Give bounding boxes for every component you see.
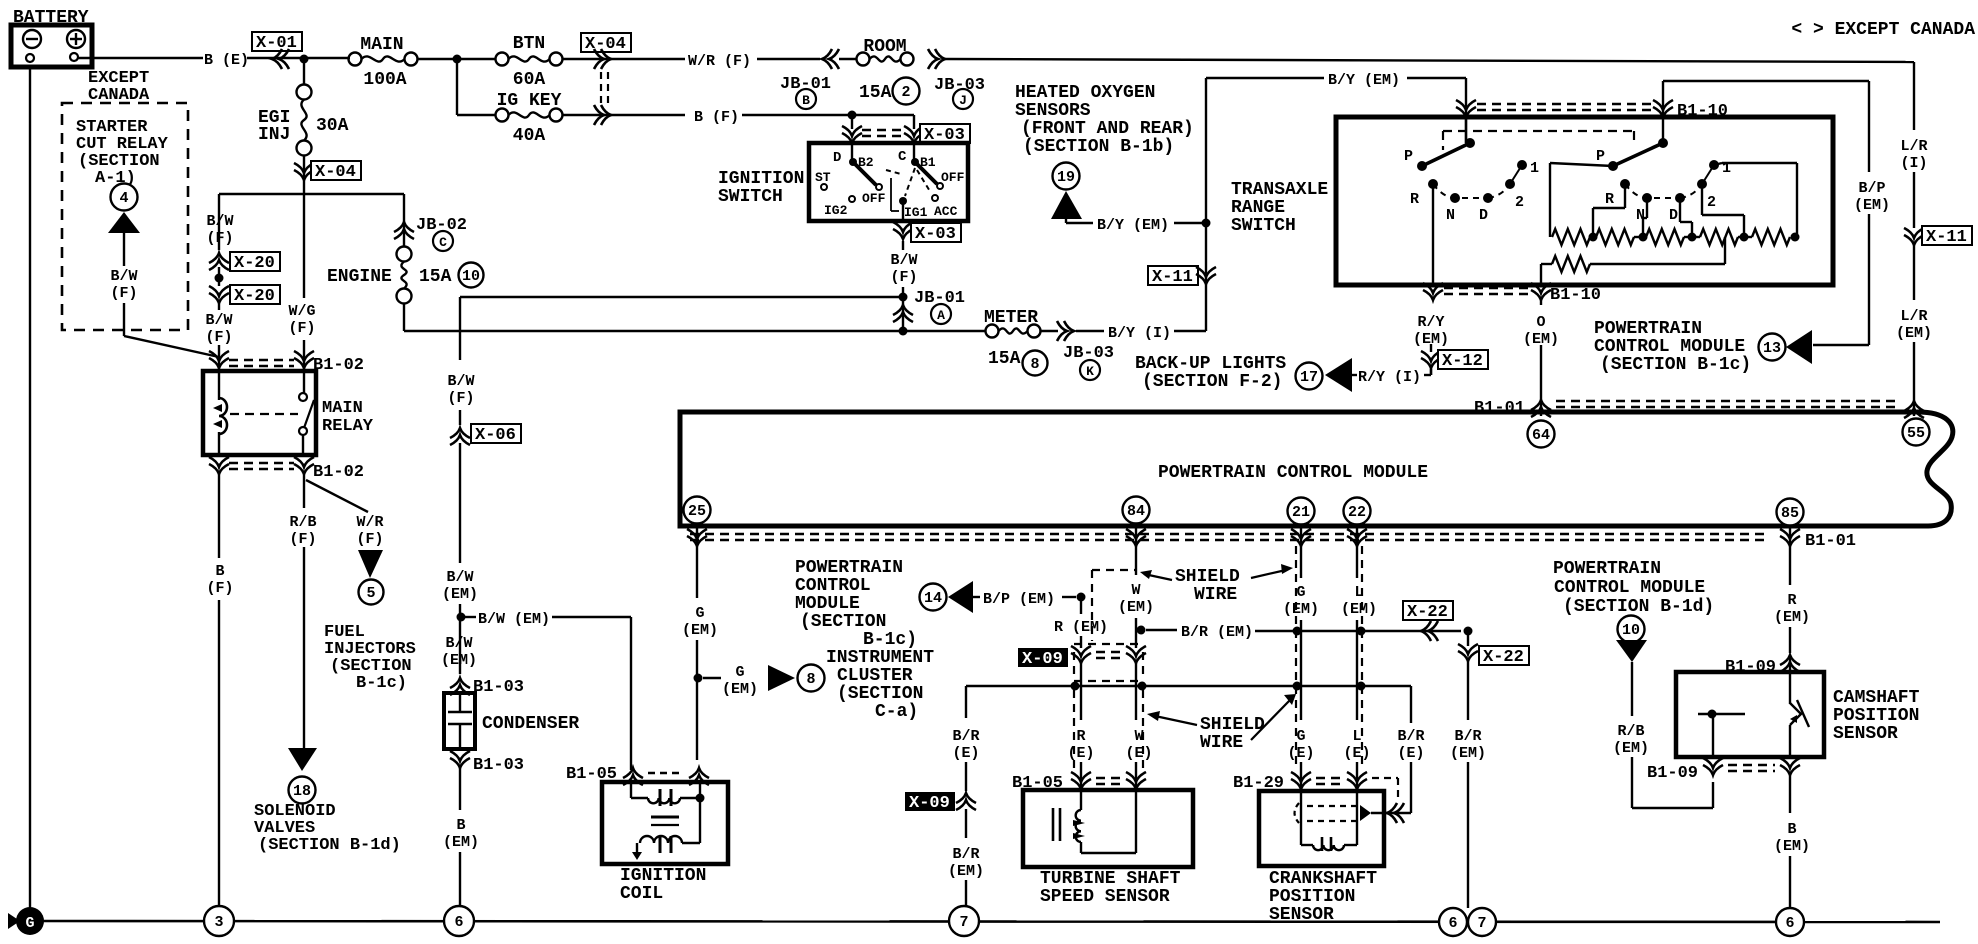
ignition coil internals bbox=[631, 782, 705, 860]
camshaft position sensor box bbox=[1676, 672, 1920, 757]
label SHIELD WIRE lower bbox=[1147, 694, 1296, 753]
wire B/Y (EM) to HO2S bbox=[1066, 217, 1206, 234]
svg-text:17: 17 bbox=[1300, 369, 1318, 386]
svg-text:IG2: IG2 bbox=[824, 203, 848, 218]
svg-text:TURBINE SHAFT: TURBINE SHAFT bbox=[1040, 869, 1181, 889]
wire B/W (F) to main relay bbox=[205, 303, 232, 371]
svg-text:IG KEY: IG KEY bbox=[497, 91, 562, 111]
node X-20 junction bbox=[215, 267, 224, 286]
svg-text:B/W: B/W bbox=[110, 268, 137, 285]
svg-text:B-1c): B-1c) bbox=[863, 630, 917, 650]
wire G (EM) pin 21 to CKP bbox=[1283, 528, 1319, 791]
svg-text:G: G bbox=[25, 915, 34, 932]
svg-text:B1-01: B1-01 bbox=[1805, 532, 1856, 551]
svg-text:G: G bbox=[1296, 584, 1305, 601]
wire R/B (F) to solenoid valves bbox=[289, 474, 316, 748]
ground G bbox=[8, 907, 44, 935]
off-page arrow 17 back-up lights bbox=[1296, 358, 1353, 392]
svg-text:X-01: X-01 bbox=[256, 34, 297, 53]
svg-text:POSITION: POSITION bbox=[1833, 706, 1919, 726]
svg-text:INSTRUMENT: INSTRUMENT bbox=[826, 648, 934, 668]
label STARTER CUT RELAY bbox=[76, 118, 169, 188]
svg-text:X-12: X-12 bbox=[1442, 352, 1483, 371]
svg-text:(E): (E) bbox=[1067, 745, 1094, 762]
off-page arrow 4 starter cut relay bbox=[108, 184, 140, 234]
svg-text:(F): (F) bbox=[206, 580, 233, 597]
wire B (F) relay to ground rail bbox=[206, 474, 233, 907]
connector JB-01 B bbox=[780, 49, 839, 109]
svg-text:CLUSTER: CLUSTER bbox=[837, 666, 913, 686]
svg-text:8: 8 bbox=[806, 671, 815, 688]
svg-text:W/R (F): W/R (F) bbox=[688, 53, 751, 70]
svg-text:CAMSHAFT: CAMSHAFT bbox=[1833, 688, 1920, 708]
svg-text:X-11: X-11 bbox=[1926, 228, 1967, 247]
wire B(E) battery to X-01 bbox=[78, 52, 350, 69]
off-page arrow 13 powertrain control module bbox=[1759, 330, 1813, 364]
svg-text:CRANKSHAFT: CRANKSHAFT bbox=[1269, 869, 1377, 889]
node shield G at B/R bbox=[1293, 627, 1302, 636]
ignition switch internals bbox=[815, 143, 965, 220]
node B/R X-22 junction bbox=[1464, 627, 1473, 636]
svg-text:B/Y (EM): B/Y (EM) bbox=[1097, 217, 1169, 234]
svg-text:B/W: B/W bbox=[206, 213, 233, 230]
wire MAIN fuse to BTN fuse bbox=[418, 58, 496, 60]
fuse BTN 60A bbox=[496, 34, 563, 90]
rail node 3 bbox=[204, 906, 234, 936]
svg-text:(EM): (EM) bbox=[1118, 599, 1154, 616]
svg-text:MAIN: MAIN bbox=[322, 399, 363, 418]
node shield bus R bbox=[1071, 682, 1080, 691]
node shield bus L bbox=[1357, 682, 1366, 691]
wire BTN to X-04 bbox=[563, 58, 685, 60]
svg-text:POWERTRAIN: POWERTRAIN bbox=[1553, 559, 1661, 579]
wire R (EM) down to TSS bbox=[1054, 597, 1108, 790]
svg-text:5: 5 bbox=[366, 585, 375, 602]
connector B1-09 top bbox=[1725, 655, 1800, 677]
off-page arrow 19 heated oxygen sensors bbox=[1051, 163, 1082, 220]
svg-text:G: G bbox=[735, 664, 744, 681]
svg-text:10: 10 bbox=[1622, 622, 1640, 639]
svg-text:13: 13 bbox=[1763, 340, 1781, 357]
svg-text:(FRONT AND REAR): (FRONT AND REAR) bbox=[1021, 119, 1194, 139]
svg-text:B/W: B/W bbox=[446, 569, 473, 586]
connector B1-02 lower bbox=[209, 457, 364, 482]
svg-text:HEATED OXYGEN: HEATED OXYGEN bbox=[1015, 83, 1155, 103]
svg-text:(SECTION: (SECTION bbox=[837, 684, 923, 704]
pin 84 bbox=[1123, 497, 1150, 524]
wire W (EM) pin 84 to TSS bbox=[1118, 528, 1154, 790]
wire W/G (F) down to main relay bbox=[288, 194, 315, 371]
svg-text:X-09: X-09 bbox=[909, 794, 950, 813]
TRS switch 2 internals bbox=[1596, 81, 1731, 224]
pin 85 bbox=[1777, 499, 1804, 526]
node BTN/IG KEY split bbox=[453, 55, 462, 64]
svg-text:POSITION: POSITION bbox=[1269, 887, 1355, 907]
svg-text:(EM): (EM) bbox=[1341, 601, 1377, 618]
svg-text:B: B bbox=[456, 817, 465, 834]
svg-text:SHIELD: SHIELD bbox=[1200, 715, 1265, 735]
svg-text:(F): (F) bbox=[289, 531, 316, 548]
fuse IG KEY 40A bbox=[496, 91, 563, 146]
svg-text:J: J bbox=[959, 93, 967, 108]
svg-text:19: 19 bbox=[1057, 169, 1075, 186]
connector X-11 right bbox=[1904, 226, 1972, 247]
wire B/W (EM) to ignition coil bbox=[465, 611, 631, 770]
TRS mechanical link dashed bbox=[1443, 131, 1634, 150]
svg-text:84: 84 bbox=[1127, 503, 1145, 520]
label TRANSAXLE RANGE SWITCH bbox=[1231, 180, 1328, 236]
svg-text:(EM): (EM) bbox=[441, 652, 477, 669]
wire IG KEY branch bbox=[457, 59, 496, 115]
svg-text:POWERTRAIN: POWERTRAIN bbox=[795, 558, 903, 578]
svg-text:18: 18 bbox=[293, 783, 311, 800]
svg-text:X-11: X-11 bbox=[1152, 268, 1193, 287]
transaxle range switch box bbox=[1336, 117, 1833, 285]
svg-text:R: R bbox=[1605, 191, 1614, 208]
connector B1-29 CKP bbox=[1233, 772, 1398, 800]
wire B (EM) CMP to rail bbox=[1774, 775, 1810, 908]
connector X-06 bbox=[450, 424, 521, 563]
svg-text:W/G: W/G bbox=[288, 303, 315, 320]
wire B/R (EM) horizontal bbox=[1146, 624, 1461, 641]
svg-text:(I): (I) bbox=[1900, 155, 1927, 172]
svg-text:BACK-UP LIGHTS: BACK-UP LIGHTS bbox=[1135, 354, 1286, 374]
svg-text:COIL: COIL bbox=[620, 884, 663, 904]
fuse ROOM 15A bbox=[839, 37, 920, 105]
node G (EM) split bbox=[694, 674, 703, 683]
off-page arrow 14 PCM bbox=[920, 581, 974, 613]
svg-text:R/Y: R/Y bbox=[1417, 314, 1444, 331]
wire R/Y (I) back-up bbox=[1352, 369, 1431, 386]
svg-text:INJ: INJ bbox=[258, 125, 290, 145]
svg-text:(EM): (EM) bbox=[682, 622, 718, 639]
svg-text:P: P bbox=[1404, 148, 1413, 165]
wire L (EM) pin 22 to CKP bbox=[1341, 528, 1377, 791]
node B/Y junction bbox=[1202, 219, 1211, 228]
svg-text:(F): (F) bbox=[206, 230, 233, 247]
capacitor condenser bbox=[444, 693, 579, 749]
svg-text:40A: 40A bbox=[513, 126, 546, 146]
svg-text:(EM): (EM) bbox=[1774, 838, 1810, 855]
svg-text:POWERTRAIN: POWERTRAIN bbox=[1594, 319, 1702, 339]
wire L/R (I) right edge bbox=[1900, 62, 1927, 228]
node shield L at B/R bbox=[1357, 627, 1366, 636]
svg-text:B/R: B/R bbox=[952, 728, 979, 745]
svg-text:X-22: X-22 bbox=[1483, 648, 1524, 667]
svg-text:(EM): (EM) bbox=[1896, 325, 1932, 342]
connector X-22 horizontal bbox=[1403, 601, 1453, 641]
rail node 6 right bbox=[1776, 908, 1804, 936]
wire B/W (F) ignition output bbox=[890, 252, 917, 297]
svg-text:10: 10 bbox=[462, 268, 480, 285]
svg-text:B: B bbox=[1787, 821, 1796, 838]
svg-text:CONTROL: CONTROL bbox=[795, 576, 871, 596]
svg-text:D: D bbox=[833, 150, 841, 166]
wire B/P (EM) from TRS to arrow 13 bbox=[1663, 81, 1890, 345]
svg-text:BATTERY: BATTERY bbox=[13, 8, 89, 28]
svg-text:30A: 30A bbox=[316, 116, 349, 136]
wire R (EM) pin 85 to CMP bbox=[1774, 528, 1810, 653]
svg-text:(E): (E) bbox=[1125, 745, 1152, 762]
svg-text:A: A bbox=[937, 308, 945, 323]
crankshaft position sensor box bbox=[1259, 791, 1384, 925]
svg-text:(SECTION F-2): (SECTION F-2) bbox=[1142, 372, 1282, 392]
svg-text:7: 7 bbox=[959, 914, 968, 931]
svg-text:CONTROL MODULE: CONTROL MODULE bbox=[1594, 337, 1745, 357]
TRS switch 1 internals bbox=[1404, 117, 1539, 285]
svg-text:(EM): (EM) bbox=[1283, 601, 1319, 618]
svg-text:TRANSAXLE: TRANSAXLE bbox=[1231, 180, 1328, 200]
svg-text:P: P bbox=[1596, 148, 1605, 165]
connector X-09 mid bbox=[1018, 646, 1146, 669]
svg-text:CONDENSER: CONDENSER bbox=[482, 714, 579, 734]
svg-text:(F): (F) bbox=[288, 320, 315, 337]
svg-text:OFF: OFF bbox=[862, 191, 886, 206]
wire B/Y (EM) top run bbox=[1206, 72, 1466, 143]
connector X-12 bbox=[1421, 350, 1488, 375]
label FUEL INJECTORS bbox=[324, 623, 416, 693]
svg-text:2: 2 bbox=[1707, 194, 1716, 211]
connector X-20 upper bbox=[209, 252, 280, 273]
svg-text:B1-03: B1-03 bbox=[473, 678, 524, 697]
label B/W (EM) below node bbox=[441, 635, 477, 669]
svg-text:G: G bbox=[695, 605, 704, 622]
svg-text:C: C bbox=[898, 149, 907, 165]
wire B/W (F) to X-06 bbox=[447, 373, 474, 425]
svg-text:RELAY: RELAY bbox=[322, 417, 374, 436]
svg-text:(EM): (EM) bbox=[1774, 609, 1810, 626]
svg-text:B: B bbox=[802, 93, 810, 108]
svg-text:(E): (E) bbox=[952, 745, 979, 762]
wire shield ground bus bbox=[966, 686, 1411, 813]
off-page arrow 18 solenoid valves bbox=[288, 748, 317, 804]
svg-text:15A: 15A bbox=[988, 349, 1021, 369]
wire W/R (F) to fuel injectors bbox=[306, 480, 384, 548]
svg-text:ACC: ACC bbox=[934, 204, 958, 219]
node W-B/R junction bbox=[1137, 626, 1146, 635]
svg-text:R: R bbox=[1076, 728, 1085, 745]
svg-text:55: 55 bbox=[1907, 425, 1925, 442]
connector B1-05 TSS bbox=[1012, 772, 1146, 793]
svg-text:25: 25 bbox=[688, 503, 706, 520]
connector B1-10 top bbox=[1456, 100, 1728, 121]
svg-text:IG1: IG1 bbox=[904, 205, 928, 220]
svg-text:OFF: OFF bbox=[941, 170, 965, 185]
svg-text:BTN: BTN bbox=[513, 34, 545, 54]
svg-text:B (F): B (F) bbox=[694, 109, 739, 126]
svg-text:R/B: R/B bbox=[289, 514, 316, 531]
svg-text:(SECTION B-1c): (SECTION B-1c) bbox=[1600, 355, 1751, 375]
svg-text:B1-03: B1-03 bbox=[473, 756, 524, 775]
connector JB-03 K bbox=[1041, 321, 1114, 380]
wire B/W (EM) to condenser bbox=[442, 569, 478, 674]
svg-text:ST: ST bbox=[815, 170, 831, 185]
svg-text:6: 6 bbox=[1785, 915, 1794, 932]
svg-text:R/Y (I): R/Y (I) bbox=[1358, 369, 1421, 386]
svg-text:15A: 15A bbox=[859, 83, 892, 103]
connector B1-09 bottom bbox=[1647, 758, 1800, 783]
svg-text:85: 85 bbox=[1781, 505, 1799, 522]
ignition coil box bbox=[602, 782, 728, 904]
connector B1-05 ignition coil bbox=[566, 765, 709, 785]
svg-text:L/R: L/R bbox=[1900, 308, 1927, 325]
powertrain control module box bbox=[680, 412, 1953, 526]
wire B/W feed to engine room bbox=[460, 297, 903, 360]
svg-text:O: O bbox=[1536, 314, 1545, 331]
svg-text:C-a): C-a) bbox=[875, 702, 918, 722]
wire meter feed bus bbox=[404, 330, 985, 332]
svg-text:SWITCH: SWITCH bbox=[718, 187, 783, 207]
connector JB-01 A bbox=[893, 289, 965, 331]
connector X-04 EGI branch bbox=[294, 155, 361, 194]
pin 55 bbox=[1903, 419, 1930, 446]
label HEATED OXYGEN SENSORS bbox=[1015, 83, 1194, 157]
wire B/P (EM) stub bbox=[973, 591, 1076, 608]
svg-text:X-20: X-20 bbox=[234, 287, 275, 306]
svg-text:(F): (F) bbox=[447, 390, 474, 407]
node B/P-R junction bbox=[1077, 593, 1086, 602]
fuse MAIN 100A bbox=[349, 35, 418, 90]
battery bbox=[11, 8, 92, 67]
node B/W (EM) split bbox=[457, 613, 466, 622]
pin 22 bbox=[1344, 498, 1371, 525]
svg-text:(SECTION B-1b): (SECTION B-1b) bbox=[1023, 137, 1174, 157]
off-page arrow 10 PCM B-1d bbox=[1616, 616, 1647, 663]
off-page arrow 5 fuel injectors bbox=[358, 550, 384, 605]
connector B1-03 upper bbox=[450, 678, 524, 697]
wire IG KEY fuse to ignition switch bbox=[563, 109, 914, 126]
svg-text:(EM): (EM) bbox=[442, 586, 478, 603]
svg-text:IGNITION: IGNITION bbox=[620, 866, 706, 886]
svg-text:B/R: B/R bbox=[1454, 728, 1481, 745]
connector JB-02 C bbox=[394, 194, 467, 251]
svg-text:(E): (E) bbox=[1287, 745, 1314, 762]
node shield bus W bbox=[1138, 682, 1147, 691]
label INSTRUMENT CLUSTER bbox=[826, 648, 934, 722]
svg-text:B/Y (EM): B/Y (EM) bbox=[1328, 72, 1400, 89]
svg-text:15A: 15A bbox=[419, 267, 452, 287]
wire G (EM) pin 25 to ignition coil bbox=[682, 528, 718, 760]
svg-text:B1-01: B1-01 bbox=[1474, 399, 1525, 418]
off-page arrow 8 instrument cluster bbox=[768, 665, 825, 692]
svg-text:B/P (EM): B/P (EM) bbox=[983, 591, 1055, 608]
svg-text:SHIELD: SHIELD bbox=[1175, 567, 1240, 587]
svg-text:1: 1 bbox=[1530, 160, 1539, 177]
svg-text:B/R: B/R bbox=[952, 846, 979, 863]
wire room fuse to right edge L/R (I) bbox=[945, 59, 1914, 62]
svg-text:2: 2 bbox=[901, 84, 910, 101]
turbine shaft speed sensor internals bbox=[1053, 790, 1136, 853]
TRS resistor ladder bbox=[1550, 163, 1800, 245]
label BACK-UP LIGHTS bbox=[1135, 354, 1286, 392]
svg-text:WIRE: WIRE bbox=[1200, 733, 1243, 753]
svg-text:N: N bbox=[1446, 207, 1455, 224]
connector X-04 top bbox=[581, 33, 631, 125]
svg-text:7: 7 bbox=[1477, 915, 1486, 932]
svg-text:IGNITION: IGNITION bbox=[718, 169, 804, 189]
shield dashed box R-W pair bbox=[1074, 570, 1143, 768]
svg-text:(SECTION B-1d): (SECTION B-1d) bbox=[1563, 597, 1714, 617]
wire battery ground left bbox=[29, 67, 31, 921]
svg-text:K: K bbox=[1086, 364, 1094, 379]
crankshaft position sensor internals bbox=[1295, 791, 1412, 851]
wire B/R (EM) to rail 7 bbox=[948, 809, 984, 907]
svg-text:(EM): (EM) bbox=[1854, 197, 1890, 214]
label POWERTRAIN CONTROL MODULE B-1c mid bbox=[795, 558, 917, 650]
svg-text:R/B: R/B bbox=[1617, 723, 1644, 740]
label POWERTRAIN CONTROL MODULE B-1c right bbox=[1594, 319, 1751, 375]
connector X-03 top bbox=[842, 115, 970, 145]
connector X-22 shield drain bbox=[1387, 803, 1404, 823]
svg-text:< > EXCEPT CANADA: < > EXCEPT CANADA bbox=[1791, 20, 1975, 40]
node JB-01 lower bbox=[899, 327, 908, 336]
svg-text:W/R: W/R bbox=[356, 514, 383, 531]
svg-text:B/P: B/P bbox=[1858, 180, 1885, 197]
wire B/R (EM) X-22 to rail bbox=[1450, 661, 1486, 908]
svg-text:B: B bbox=[215, 563, 224, 580]
svg-text:CONTROL MODULE: CONTROL MODULE bbox=[1554, 578, 1705, 598]
svg-text:(EM): (EM) bbox=[443, 834, 479, 851]
svg-text:8: 8 bbox=[1030, 356, 1039, 373]
svg-text:(EM): (EM) bbox=[948, 863, 984, 880]
fuse METER 15A bbox=[984, 308, 1048, 376]
main relay box bbox=[203, 371, 374, 455]
svg-text:B/Y (I): B/Y (I) bbox=[1108, 325, 1171, 342]
svg-text:(E): (E) bbox=[1343, 745, 1370, 762]
svg-text:B/W: B/W bbox=[447, 373, 474, 390]
connector X-20 lower bbox=[209, 285, 280, 306]
svg-text:RANGE: RANGE bbox=[1231, 198, 1285, 218]
connector JB-03 J bbox=[928, 49, 985, 109]
TRS output resistor O(EM) bbox=[1541, 237, 1725, 285]
connector X-03 bottom bbox=[893, 201, 961, 250]
svg-text:X-20: X-20 bbox=[234, 254, 275, 273]
svg-text:B/W: B/W bbox=[445, 635, 472, 652]
svg-text:ENGINE: ENGINE bbox=[327, 267, 392, 287]
main relay internals bbox=[213, 371, 314, 455]
svg-text:(EM): (EM) bbox=[722, 681, 758, 698]
svg-text:D: D bbox=[1669, 207, 1678, 224]
svg-text:L: L bbox=[1352, 728, 1361, 745]
svg-text:X-03: X-03 bbox=[915, 225, 956, 244]
rail node 6 mid bbox=[1439, 908, 1467, 936]
shield dashed G-L pair bbox=[1296, 546, 1362, 768]
svg-text:14: 14 bbox=[924, 590, 942, 607]
svg-text:B/R (EM): B/R (EM) bbox=[1181, 624, 1253, 641]
connector B1-03 lower bbox=[450, 751, 524, 775]
svg-text:X-09: X-09 bbox=[1022, 650, 1063, 669]
svg-text:B/W: B/W bbox=[205, 312, 232, 329]
wire B/W (F) to X-20 bbox=[206, 194, 233, 250]
svg-text:3: 3 bbox=[214, 914, 223, 931]
fuse ENGINE 15A bbox=[327, 247, 484, 332]
node B(F) ignition split bbox=[848, 111, 857, 120]
svg-text:R: R bbox=[1787, 592, 1796, 609]
svg-text:2: 2 bbox=[1515, 194, 1524, 211]
svg-text:ROOM: ROOM bbox=[863, 37, 906, 57]
svg-text:B1-09: B1-09 bbox=[1647, 764, 1698, 783]
svg-text:64: 64 bbox=[1532, 427, 1550, 444]
svg-text:B/W: B/W bbox=[890, 252, 917, 269]
connector B1-01 top at 55 bbox=[1904, 401, 1924, 418]
svg-text:L/R: L/R bbox=[1900, 138, 1927, 155]
rail node 6 condenser bbox=[444, 906, 474, 936]
rail node 7 mid bbox=[1468, 908, 1496, 936]
svg-text:X-06: X-06 bbox=[475, 426, 516, 445]
svg-text:SWITCH: SWITCH bbox=[1231, 216, 1296, 236]
svg-text:W: W bbox=[1131, 582, 1140, 599]
svg-text:(E): (E) bbox=[1397, 745, 1424, 762]
